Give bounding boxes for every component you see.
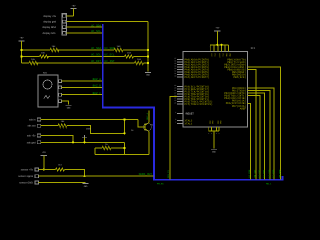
wire	[216, 31, 218, 45]
wire	[73, 9, 75, 16]
pin vcc top	[228, 45, 230, 52]
transistor T1	[143, 123, 151, 131]
wire	[38, 182, 85, 184]
pin gnd bottom	[218, 127, 220, 131]
wire SCL	[66, 32, 101, 34]
wire	[41, 125, 58, 127]
svg-text:30: 30	[174, 75, 176, 78]
connector X1 display	[62, 14, 66, 36]
junction	[20, 55, 22, 57]
svg-text:26: 26	[174, 102, 176, 105]
wire rail SDA	[22, 49, 149, 51]
resistor R4	[114, 48, 123, 51]
pin 25 PC6(TOSC1/PCINT22)	[177, 101, 183, 103]
svg-text:MB_PWM: MB_PWM	[278, 169, 281, 178]
wire	[65, 170, 85, 177]
wire UC_TX1 to bus	[248, 96, 261, 180]
resistor R8	[95, 147, 102, 149]
svg-text:UC_INT: UC_INT	[105, 60, 115, 63]
svg-text:UC_INT: UC_INT	[91, 60, 101, 63]
wire	[67, 126, 125, 134]
pin 7 XTAL1	[177, 123, 183, 125]
ground	[211, 148, 217, 150]
junction	[216, 44, 218, 46]
svg-text:PM_RX: PM_RX	[157, 183, 164, 186]
pin vcc top	[217, 45, 219, 52]
svg-text:!RESET: !RESET	[185, 112, 195, 115]
svg-text:SDS_TX: SDS_TX	[167, 169, 170, 178]
pin 4 RESET	[177, 113, 183, 115]
wire PC4 to bus	[170, 97, 177, 180]
pin vcc top	[213, 45, 215, 52]
svg-text:BUZ_A: BUZ_A	[93, 78, 102, 81]
resistor R3	[29, 61, 38, 64]
pin 22 PC3(TMS/PCINT19)	[177, 93, 183, 95]
svg-text:100n: 100n	[86, 128, 92, 131]
wire	[61, 80, 101, 82]
pin 35 PA2(ADC2/PCINT2)	[177, 64, 183, 66]
connector X2 sds	[37, 118, 40, 121]
junction	[123, 147, 125, 149]
wire	[41, 136, 73, 143]
svg-text:sensor signal: sensor signal	[18, 175, 33, 178]
pin gnd bottom	[208, 127, 210, 131]
wire UC_TX0 to bus	[248, 91, 271, 180]
wire	[21, 41, 23, 63]
wire vcc rail	[210, 44, 228, 46]
svg-text:display SCL: display SCL	[43, 32, 57, 35]
wire	[95, 154, 149, 156]
svg-text:8: 8	[175, 118, 176, 121]
ground	[145, 71, 151, 73]
svg-text:IC1: IC1	[251, 47, 256, 50]
svg-text:BUZ_A: BUZ_A	[146, 112, 149, 119]
svg-text:UC_SDA: UC_SDA	[91, 24, 101, 27]
pin 26 PC7(TOSC2/PCINT23)	[177, 103, 183, 105]
pin 24 PC5(TDI/PCINT21)	[177, 98, 183, 100]
junction	[123, 118, 125, 120]
svg-text:sensor GND: sensor GND	[19, 182, 33, 185]
wire	[66, 15, 73, 17]
svg-text:BUZ_B: BUZ_B	[93, 85, 102, 88]
svg-text:+5V: +5V	[20, 37, 25, 40]
svg-text:UC_SDA: UC_SDA	[105, 47, 115, 50]
wire display gnd	[66, 21, 148, 23]
resistor R8	[102, 146, 111, 149]
wire	[61, 101, 68, 104]
resistor R5	[125, 55, 134, 58]
ground	[66, 104, 72, 106]
wire rail SCL	[22, 56, 149, 58]
svg-text:PC7(TOSC2/PCINT23): PC7(TOSC2/PCINT23)	[185, 103, 213, 106]
svg-text:sds +5v: sds +5v	[27, 135, 36, 138]
svg-text:PA7(ADC7/PCINT7): PA7(ADC7/PCINT7)	[185, 76, 210, 79]
wire	[124, 142, 126, 154]
svg-text:display SDA: display SDA	[42, 26, 56, 29]
svg-text:+5V: +5V	[42, 151, 47, 154]
resistor R9	[56, 168, 65, 171]
svg-text:UC_SCL: UC_SCL	[91, 30, 101, 33]
wire	[41, 141, 125, 143]
pin 8 XTAL2	[177, 120, 183, 122]
junction	[20, 49, 22, 51]
wire SDA	[66, 26, 101, 28]
svg-text:UC_SCL: UC_SCL	[105, 54, 115, 57]
wire	[41, 119, 138, 121]
pin 34 PA3(ADC3/PCINT3)	[177, 66, 183, 68]
wire UC_PD6 to bus	[248, 103, 251, 179]
svg-text:7: 7	[175, 121, 176, 124]
wire gnd drop	[147, 22, 149, 72]
svg-text:SENS_OUT: SENS_OUT	[139, 173, 153, 176]
svg-text:UC_TX1: UC_TX1	[258, 169, 261, 178]
wire	[61, 86, 101, 88]
svg-text:sensor +5v: sensor +5v	[21, 169, 34, 172]
pin 23 PC4(TDO/PCINT20)	[177, 96, 183, 98]
svg-text:display +5v: display +5v	[43, 15, 56, 18]
svg-text:sds out: sds out	[27, 125, 35, 128]
svg-text:UC_PD6: UC_PD6	[248, 169, 251, 178]
wire sensor signal	[38, 175, 153, 177]
junction	[72, 141, 74, 143]
junction	[43, 168, 45, 170]
wire	[84, 138, 86, 143]
svg-text:sds in: sds in	[29, 119, 36, 122]
wire MB_PWM to bus	[248, 67, 281, 179]
svg-text:BUZ_C: BUZ_C	[93, 92, 102, 95]
svg-text:AREF: AREF	[240, 107, 247, 110]
bus	[103, 24, 283, 180]
junction	[147, 49, 149, 51]
wire	[38, 169, 55, 171]
wire base	[138, 120, 145, 128]
resistor R6	[135, 61, 144, 64]
svg-text:UC_SCL: UC_SCL	[91, 54, 101, 57]
wire UC_RX0 to bus	[248, 88, 275, 179]
svg-text:UC_TX0: UC_TX0	[268, 169, 271, 178]
wire	[61, 94, 101, 96]
pin vcc top	[224, 45, 226, 52]
svg-text:sds gnd: sds gnd	[27, 141, 36, 144]
junction	[221, 44, 223, 46]
resistor R1	[50, 48, 59, 51]
power +5V P5	[82, 135, 87, 137]
junction	[83, 175, 85, 177]
ground	[83, 183, 89, 185]
pin 37 PA0(ADC0/PCINT0)	[177, 59, 183, 61]
svg-text:XTAL1: XTAL1	[185, 122, 193, 125]
svg-text:SG1: SG1	[43, 72, 48, 75]
resistor R2	[40, 55, 49, 58]
buzzer SG1	[38, 75, 58, 107]
wire collector	[148, 111, 150, 123]
connector X3 sensor	[35, 168, 38, 171]
wire	[213, 131, 215, 148]
pin 36 PA1(ADC1/PCINT1)	[177, 61, 183, 63]
pin vcc top	[221, 45, 223, 52]
pin 20 PC1(SDA/PCINT17)	[177, 88, 183, 90]
pin 31 PA6(ADC6/PCINT6)	[177, 74, 183, 76]
wire emitter	[148, 131, 150, 154]
pin 30 PA7(ADC7/PCINT7)	[177, 76, 183, 78]
wire MB_INT to bus	[248, 70, 256, 180]
wire	[111, 147, 125, 149]
resistor R7	[58, 124, 67, 127]
wire	[209, 130, 219, 132]
pin gnd bottom	[210, 127, 212, 131]
svg-text:display gnd: display gnd	[43, 21, 56, 24]
junction	[147, 55, 149, 57]
svg-text:PB7(SCK): PB7(SCK)	[234, 76, 247, 79]
svg-text:MB_INT: MB_INT	[254, 169, 257, 178]
svg-text:+5V: +5V	[72, 4, 77, 7]
svg-text:4: 4	[175, 111, 176, 114]
wire UC_RX1 to bus	[248, 93, 265, 179]
wire	[124, 120, 126, 134]
svg-text:UC_RX1: UC_RX1	[262, 169, 265, 178]
junction	[123, 132, 125, 134]
pin 32 PA5(ADC5/PCINT5)	[177, 71, 183, 73]
pin 21 PC2(TCK/PCINT18)	[177, 91, 183, 93]
op-amp U1 : microcontroller IC1 box	[183, 52, 248, 128]
svg-text:+5V: +5V	[215, 27, 220, 30]
wire	[94, 148, 96, 155]
pin gnd bottom	[215, 127, 217, 131]
pin vcc top	[209, 45, 211, 52]
svg-text:UC_RX0: UC_RX0	[272, 169, 275, 178]
wire rail INT	[22, 62, 149, 64]
junction	[147, 62, 149, 64]
junction	[83, 141, 85, 143]
svg-text:UC_SDA: UC_SDA	[91, 47, 101, 50]
svg-text:MB_1: MB_1	[266, 183, 272, 186]
wire	[43, 155, 45, 169]
pin 33 PA4(ADC4/PCINT4)	[177, 69, 183, 71]
pin 19 PC0(SCL/PCINT16)	[177, 86, 183, 88]
